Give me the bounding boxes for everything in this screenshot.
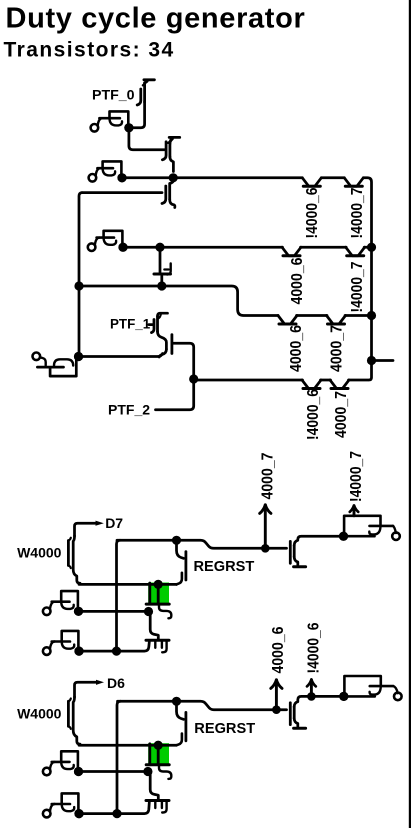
- transistor P-B2 (D6 row B): [43, 793, 84, 818]
- svg-text:!4000_6: !4000_6: [304, 187, 321, 238]
- transistor N1 (PTF_0 pull-up): [133, 80, 154, 128]
- svg-text:4000_6: 4000_6: [288, 325, 305, 372]
- junction dot row B P (D6): [74, 809, 83, 818]
- wire output stub right of bus (y360.5): [373, 359, 393, 362]
- svg-text:4000_7: 4000_7: [328, 325, 345, 372]
- transistor GREEN-D7 (highlighted pair): [146, 580, 171, 618]
- label D6: [107, 675, 125, 691]
- svg-text:W4000: W4000: [17, 545, 62, 561]
- svg-text:!4000_7: !4000_7: [349, 187, 366, 238]
- svg-text:!4000_6: !4000_6: [305, 622, 322, 673]
- label REGRST (D7 block): [194, 559, 255, 575]
- junction dot D1 (P1 drain node): [124, 123, 133, 132]
- arrow !4000_7 (D7 small): [350, 506, 358, 516]
- label PTF_2: [108, 402, 150, 418]
- junction dot row A P (D6): [74, 767, 83, 776]
- transistor P4 (left input, flipped): [33, 352, 84, 376]
- svg-text:W4000: W4000: [17, 705, 62, 721]
- transistor P5 (D7 right, circle right): [339, 516, 400, 541]
- net label !4000_7 (wire y178): [349, 187, 366, 238]
- transistor Q-PTF1-B: [158, 332, 172, 358]
- wire R1 (D7 row to green, y584.4): [79, 583, 177, 586]
- wire REGRST row (D6, y701.3 jog to y709.7): [118, 701, 287, 709]
- transistor REGRST-T2 (D6): [177, 704, 186, 745]
- junction dot P5 (D7): [339, 532, 348, 541]
- svg-text:REGRST: REGRST: [194, 559, 255, 575]
- green highlight (D6 selected transistor): [148, 743, 169, 765]
- junction dot D11 (bus x row2): [367, 243, 376, 252]
- svg-text:4000_6: 4000_6: [270, 626, 287, 673]
- junction dot D13 (bus output): [367, 356, 376, 365]
- svg-text:4000_7: 4000_7: [333, 391, 350, 438]
- label REGRST (D6 block): [194, 721, 255, 737]
- transistor N3: [162, 181, 175, 208]
- wire row A (D7, y611.4): [82, 610, 145, 613]
- wire row B (D7, y651.1): [82, 642, 149, 651]
- transistor M-pass (between row 2 and row 3): [154, 252, 171, 285]
- transistor W4000-D6 (tall): [68, 697, 80, 744]
- svg-text:!4000_7: !4000_7: [349, 261, 366, 312]
- svg-text:!4000_6: !4000_6: [305, 389, 322, 440]
- right border line: [409, 0, 411, 828]
- transistor PI-2 (D6 below row A): [146, 774, 169, 813]
- junction dot row B P (D7): [74, 647, 83, 656]
- net label !4000_7 (D7 arrow): [348, 451, 365, 502]
- wire gate feed from P1 drain to N2 (y150): [129, 132, 166, 150]
- net label !4000_6 (wire y178): [304, 187, 321, 238]
- transistor PI-1 (D7 below row A): [146, 614, 169, 652]
- transistor N-REGRST-D7 (gate x290): [290, 536, 341, 567]
- junction dot D10 (PTF_2 node): [189, 374, 198, 383]
- svg-text:PTF_2: PTF_2: [108, 402, 150, 418]
- net label 4000_6 (wire y246): [289, 257, 306, 304]
- junction dot D8 (pass source on row3): [157, 281, 166, 290]
- label PTF_1: [110, 316, 151, 331]
- transistor P-A2 (D6 row A): [43, 751, 83, 776]
- net label 4000_7 (wire y381): [333, 391, 350, 438]
- wire row B (D6, y813.6): [82, 802, 149, 813]
- svg-text:D7: D7: [105, 515, 123, 531]
- transistor P2: [89, 161, 127, 182]
- label D7: [105, 515, 123, 531]
- svg-text:4000_7: 4000_7: [260, 452, 277, 499]
- transistor N-REGRST-D6 (gate x290): [290, 696, 341, 728]
- transistor P1 (input inverter): [91, 111, 134, 132]
- junction dot REGRST-T2 gate (D6): [172, 697, 181, 706]
- junction dot row A P (D7): [74, 607, 83, 616]
- svg-text:PTF_0: PTF_0: [92, 88, 135, 104]
- arrow 4000_6 (D6 big): [271, 680, 282, 714]
- arrow !4000_6 (D6 small): [307, 680, 316, 701]
- net label 4000_6 (D6 arrow): [270, 626, 287, 673]
- junction dot D2 (row1 left): [117, 173, 126, 182]
- green highlight (D7 selected transistor): [148, 583, 169, 605]
- junction dot D6 (pass gate top, row2): [155, 243, 164, 252]
- wire REGRST row (y540.3 jog to y548.3): [117, 540, 287, 548]
- wire W4000 gate row (y356.5): [82, 354, 163, 357]
- label W4000 (D6 block): [17, 705, 62, 721]
- wire rail D7 (x116.5): [117, 540, 121, 650]
- svg-text:Duty cycle generator: Duty cycle generator: [6, 2, 306, 34]
- wire D6 with arrowhead: [75, 680, 105, 697]
- wire net !4000 bus row 1 (y178) with bus corner: [126, 178, 372, 380]
- junction dot row A right (D7): [144, 607, 153, 616]
- transistor P-B (D7 row B): [43, 631, 84, 656]
- svg-text:PTF_1: PTF_1: [110, 316, 151, 331]
- wire left rail with top corner (x79): [79, 193, 162, 357]
- junction dot D7 (left rail / row3): [74, 281, 83, 290]
- svg-text:REGRST: REGRST: [194, 721, 255, 737]
- net label !4000_6 (D6 arrow): [305, 622, 322, 673]
- svg-text:4000_6: 4000_6: [289, 257, 306, 304]
- arrow 4000_7 (D7 big): [260, 505, 271, 553]
- junction dot rail end (D6): [112, 809, 121, 818]
- transistor P-A (D7 row A): [43, 591, 83, 616]
- svg-text:!4000_7: !4000_7: [348, 451, 365, 502]
- title: [6, 2, 306, 34]
- net label 4000_7 (wire y315): [328, 325, 345, 372]
- junction dot D3 (N2 source on row1): [169, 173, 178, 182]
- wire PTF_2 (y409.7): [156, 383, 194, 410]
- net label 4000_6 (wire y315): [288, 325, 305, 372]
- label W4000 (D7 block): [17, 545, 62, 561]
- wire rail D6 (x117): [117, 701, 121, 812]
- net label !4000_6 (wire y381): [305, 389, 322, 440]
- junction dot D5 (P3 drain): [118, 243, 127, 252]
- svg-text:D6: D6: [107, 675, 125, 691]
- svg-text:Transistors: 34: Transistors: 34: [4, 39, 175, 62]
- wire net row 4 (y380): [196, 380, 368, 389]
- junction dot P6 (D6): [339, 692, 348, 701]
- transistor REGRST-T1 (D7): [177, 543, 186, 584]
- transistor GREEN-D6 (highlighted pair): [146, 741, 171, 779]
- net label !4000_7 (wire y246): [349, 261, 366, 312]
- wire net row 2 (y247.2): [126, 247, 369, 256]
- subtitle: [4, 39, 175, 62]
- junction dot row A right (D6): [143, 767, 152, 776]
- wire PTF_1 output to junction (y343.2): [173, 343, 194, 376]
- junction dot D12 (bus x row3): [367, 311, 376, 320]
- transistor P3: [88, 231, 128, 252]
- wire R1 (D6 row to green, y745.2): [79, 744, 177, 747]
- transistor Q-PTF1-A: [149, 313, 168, 332]
- transistor P6 (D6 right, circle right): [339, 676, 401, 701]
- wire row A (D6, y771.5): [82, 770, 145, 773]
- transistor W4000-D7 (tall): [68, 536, 80, 583]
- wire D7 with arrowhead: [75, 521, 104, 536]
- junction dot D9 (left rail bottom): [74, 352, 83, 361]
- junction dot rail end (D7): [112, 647, 121, 656]
- net label 4000_7 (D7 arrow): [260, 452, 277, 499]
- transistor N2: [162, 137, 179, 171]
- label PTF_0: [92, 88, 135, 104]
- junction dot REGRST-T1 gate (D7): [172, 536, 181, 545]
- wire net row 3 (y286 then y315.5): [82, 286, 369, 324]
